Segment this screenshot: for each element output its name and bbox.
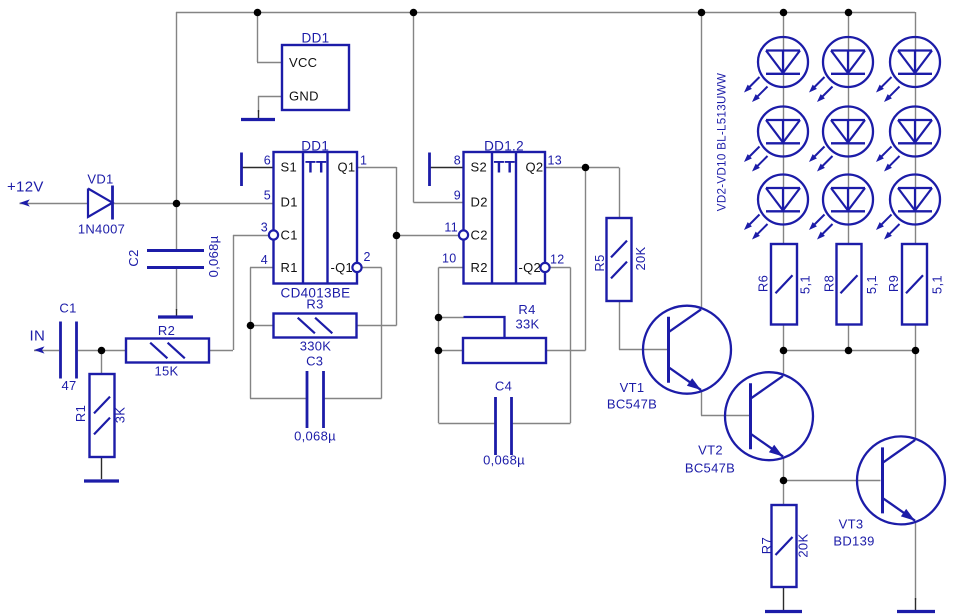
svg-text:5,1: 5,1 (930, 275, 945, 294)
svg-text:TT: TT (494, 158, 516, 177)
svg-text:VD1: VD1 (87, 172, 113, 187)
svg-text:1N4007: 1N4007 (78, 222, 125, 237)
svg-text:3: 3 (261, 221, 268, 235)
svg-text:0,068µ: 0,068µ (206, 235, 221, 277)
svg-text:IN: IN (30, 328, 46, 345)
svg-text:2: 2 (364, 250, 371, 264)
svg-text:Q1: Q1 (338, 160, 356, 175)
svg-text:5,1: 5,1 (798, 275, 813, 294)
svg-text:R8: R8 (821, 275, 836, 292)
svg-text:5,1: 5,1 (864, 275, 879, 294)
svg-text:3K: 3K (113, 407, 128, 424)
svg-text:D1: D1 (281, 195, 298, 210)
svg-text:C2: C2 (126, 249, 141, 266)
svg-text:VT1: VT1 (620, 380, 645, 395)
svg-text:R4: R4 (518, 302, 535, 317)
svg-text:33K: 33K (515, 317, 539, 332)
svg-text:S2: S2 (471, 160, 488, 175)
svg-text:BD139: BD139 (833, 534, 874, 549)
svg-text:R3: R3 (306, 297, 323, 312)
svg-text:C1: C1 (281, 228, 298, 243)
svg-text:330K: 330K (300, 339, 332, 354)
svg-text:6: 6 (264, 154, 271, 168)
svg-text:20K: 20K (633, 246, 648, 270)
svg-text:DD1.2: DD1.2 (484, 139, 524, 154)
svg-text:20K: 20K (796, 534, 811, 558)
svg-text:15K: 15K (154, 364, 178, 379)
svg-text:VT2: VT2 (698, 443, 723, 458)
svg-text:C2: C2 (471, 228, 488, 243)
svg-text:12: 12 (550, 253, 565, 267)
svg-text:R9: R9 (886, 275, 901, 292)
svg-text:VD2-VD10 BL-L513UWW: VD2-VD10 BL-L513UWW (716, 73, 729, 211)
svg-text:R1: R1 (73, 405, 88, 422)
svg-text:VCC: VCC (289, 55, 317, 70)
svg-text:C4: C4 (495, 379, 512, 394)
svg-text:0,068µ: 0,068µ (294, 429, 336, 444)
svg-text:+12V: +12V (7, 179, 44, 196)
svg-text:TT: TT (305, 158, 327, 177)
svg-text:Q2: Q2 (526, 160, 544, 175)
svg-text:-Q1: -Q1 (331, 260, 354, 275)
svg-text:5: 5 (264, 189, 271, 203)
svg-text:VT3: VT3 (839, 517, 864, 532)
svg-text:0,068µ: 0,068µ (483, 453, 525, 468)
svg-text:DD1: DD1 (302, 31, 330, 46)
svg-text:-Q2: -Q2 (519, 260, 542, 275)
svg-text:R1: R1 (281, 260, 298, 275)
svg-text:11: 11 (444, 221, 458, 235)
svg-text:R5: R5 (592, 254, 607, 271)
svg-text:D2: D2 (471, 195, 488, 210)
svg-text:GND: GND (289, 89, 319, 104)
svg-text:13: 13 (548, 154, 563, 168)
svg-text:1: 1 (360, 154, 367, 168)
svg-text:DD1: DD1 (301, 139, 329, 154)
svg-text:4: 4 (261, 253, 268, 267)
svg-text:10: 10 (442, 252, 457, 266)
svg-text:47: 47 (61, 378, 76, 393)
svg-text:R7: R7 (759, 537, 774, 554)
svg-text:BC547B: BC547B (685, 461, 735, 476)
svg-text:S1: S1 (281, 160, 298, 175)
svg-text:BC547B: BC547B (607, 397, 657, 412)
svg-text:9: 9 (454, 189, 461, 203)
svg-text:C3: C3 (306, 354, 323, 369)
svg-text:8: 8 (454, 154, 461, 168)
svg-text:R2: R2 (158, 323, 175, 338)
svg-text:C1: C1 (59, 301, 76, 316)
svg-text:R6: R6 (756, 275, 771, 292)
svg-text:R2: R2 (471, 260, 488, 275)
